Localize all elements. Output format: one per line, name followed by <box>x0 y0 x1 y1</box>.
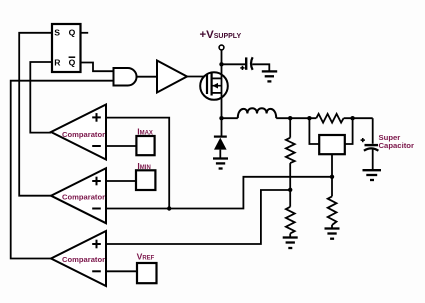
ground (input capacitor) <box>262 71 277 81</box>
ground (divider) <box>283 238 298 249</box>
wire: comparator3 output to AND gate input 2 <box>11 81 114 259</box>
wire: input capacitor to ground <box>252 64 269 70</box>
wire: comparator1 minus to IMAX box <box>106 145 136 147</box>
capacitor C1 (input, polarized) <box>240 57 252 70</box>
diode D1 <box>214 137 227 158</box>
wire: comparator2 plus to IMIN box <box>106 180 136 182</box>
svg-text:R: R <box>54 57 61 67</box>
svg-text:Q: Q <box>69 27 76 37</box>
node: FB1 comparator junction <box>167 206 171 210</box>
SR latch U1 <box>52 24 81 72</box>
resistor R3 (divider lower) <box>286 207 295 234</box>
svg-text:Comparator: Comparator <box>62 255 105 264</box>
wire: sense resistor right down to box <box>345 118 353 144</box>
node: sense resistor left <box>307 116 311 120</box>
wire: switch node to inductor <box>222 117 238 119</box>
box component (shunt block) <box>319 135 345 154</box>
node: output node / divider top <box>288 116 292 120</box>
inductor L1 <box>238 108 276 118</box>
wire: FB1 junction down to resistor R4 <box>331 177 333 228</box>
wire: FB2 net (comparator3 plus to divider midpoint) <box>106 190 290 244</box>
wire: supply rail through MOSFET (drain/source vertical) <box>221 50 223 118</box>
wire: inductor to output node <box>276 117 316 119</box>
wire: Qbar output to AND gate input 1 <box>81 63 114 72</box>
wire: AND gate output to buffer <box>137 76 157 78</box>
wire: junction to input capacitor <box>222 63 246 65</box>
ground (diode) <box>213 159 228 169</box>
wire: FB1 net (comparator2 minus to box tap) <box>106 118 332 209</box>
svg-text:Q: Q <box>69 57 76 67</box>
VREF reference box <box>137 251 157 283</box>
svg-text:S: S <box>54 27 60 37</box>
wire: output node down through divider <box>289 118 291 237</box>
ground (super capacitor) <box>363 170 382 180</box>
supply terminal +VSUPPLY <box>200 29 242 50</box>
wire: supercap branch <box>372 118 374 144</box>
node: supply/input-cap junction <box>219 62 223 66</box>
wire: comparator3 minus to VREF box <box>106 270 137 272</box>
wire: buffer output to MOSFET gate <box>187 76 208 78</box>
op-amp U6 (comparator 3, VREF) <box>51 231 106 286</box>
node: sense resistor right <box>350 116 354 120</box>
wire: switch node to diode <box>221 118 223 136</box>
resistor R2 (horizontal sense resistor) <box>316 114 343 123</box>
IMAX reference box <box>136 126 154 155</box>
node: divider midpoint <box>288 188 292 192</box>
wire: Q output stub <box>81 32 89 34</box>
wire: comparator2 output to S input <box>19 33 52 196</box>
op-amp U5 (comparator 2, IMIN) <box>51 168 106 223</box>
node: box tap / FB1 junction <box>330 175 334 179</box>
op-amp U4 (comparator 1, IMAX) <box>51 105 106 160</box>
svg-text:Capacitor: Capacitor <box>379 141 414 150</box>
IMIN reference box <box>136 161 155 190</box>
wire: comparator1 output to R input <box>30 62 52 133</box>
wire: box bottom tap <box>331 154 333 177</box>
svg-text:Comparator: Comparator <box>62 192 105 201</box>
capacitor C2 (super capacitor, polarized) <box>361 138 379 169</box>
resistor R1 (divider upper) <box>286 138 295 163</box>
svg-text:Comparator: Comparator <box>62 130 105 139</box>
wire: sense resistor left down to box <box>309 118 319 144</box>
AND gate U2 <box>114 68 137 86</box>
wire: sense resistor right to supercap branch <box>344 117 373 119</box>
transistor Q1 (P-MOSFET) <box>200 72 228 100</box>
buffer U3 <box>157 61 187 93</box>
label: Super Capacitor <box>379 133 414 150</box>
resistor R4 <box>328 196 337 225</box>
node: switch node junction <box>219 116 223 120</box>
ground (R4) <box>325 229 340 239</box>
